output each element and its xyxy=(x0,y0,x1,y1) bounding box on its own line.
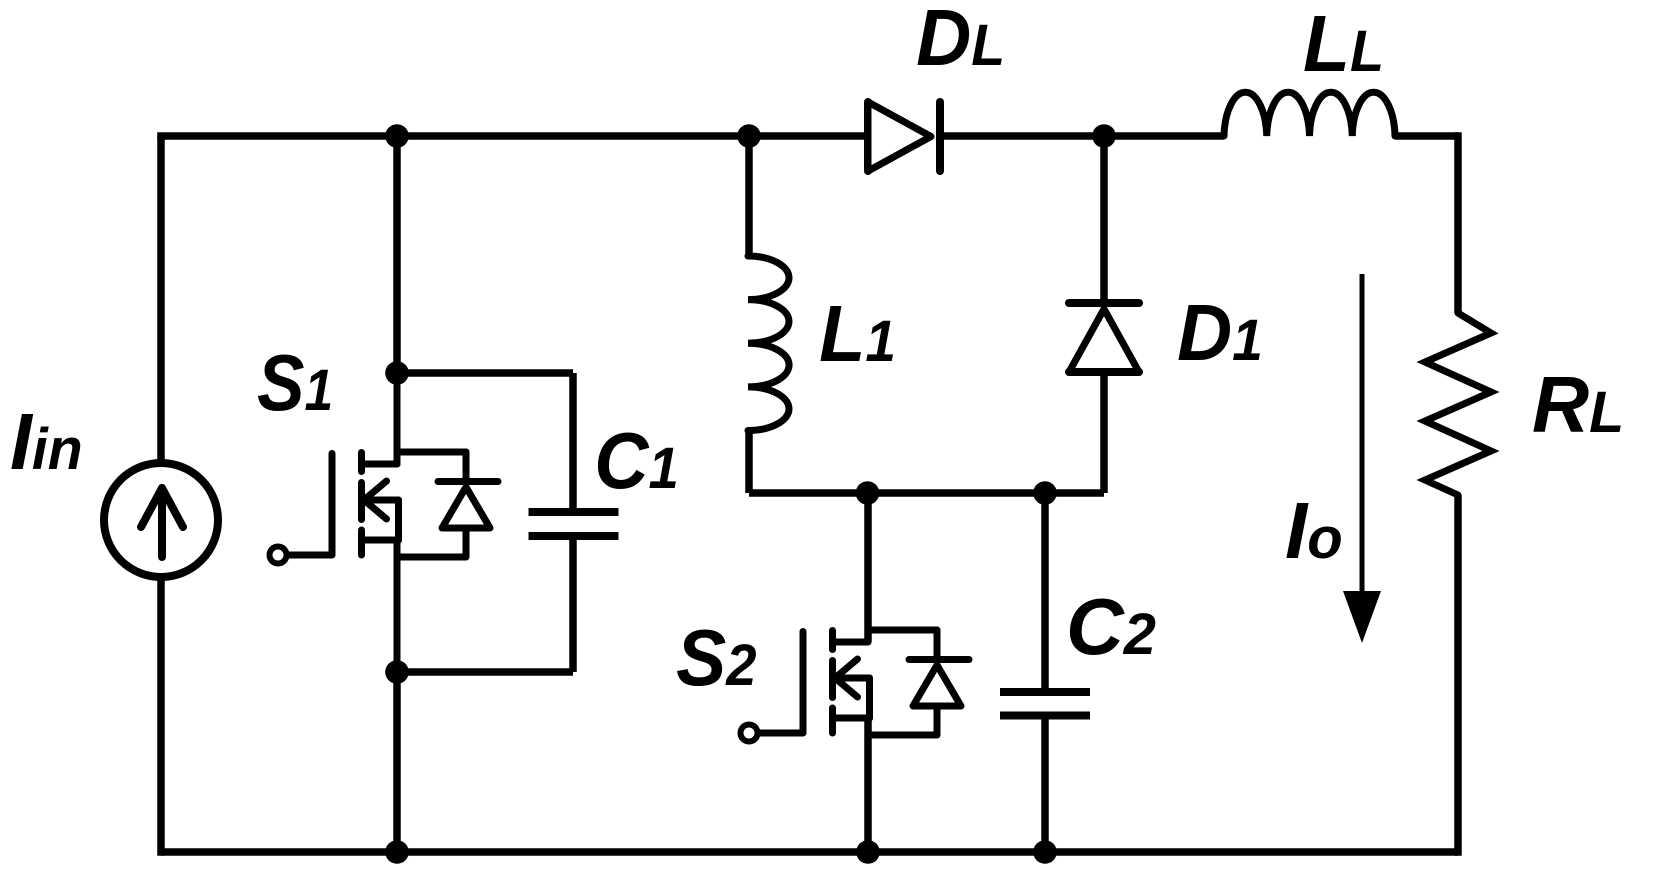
S1 channel segment drain xyxy=(358,453,365,472)
node bottom rail / C2 branch (junction dot) xyxy=(1033,840,1057,864)
S1 body diode anode lead xyxy=(463,528,470,557)
wire left rail upper (top rail to current source) xyxy=(157,136,165,464)
L1 top lead xyxy=(745,136,753,256)
diode D1 xyxy=(1069,136,1139,493)
D1 triangle xyxy=(1069,309,1139,372)
S2 source stub xyxy=(833,715,870,722)
D1 base bar xyxy=(1069,368,1139,376)
L1 bottom lead xyxy=(745,431,753,494)
node bottom rail / S2 branch (junction dot) xyxy=(856,840,880,864)
S2 body diode top branch xyxy=(868,627,937,634)
transistor S2 (MOSFET with body diode) xyxy=(741,493,970,852)
C1 top branch wire xyxy=(397,369,573,377)
node bottom rail / S1 branch (junction dot) xyxy=(385,840,409,864)
S2 body diode triangle xyxy=(913,665,961,706)
S1 body-source connector xyxy=(395,500,402,540)
S1 body diode cathode bar xyxy=(438,478,498,485)
S1 drain lead xyxy=(394,373,401,464)
S1 body diode cathode lead xyxy=(463,452,470,478)
arrow Io xyxy=(1343,274,1381,643)
wire S1 branch bottom (source node to bottom rail) xyxy=(393,672,401,852)
S1 body diode top branch xyxy=(397,449,466,456)
S1 body arrow barb upper xyxy=(364,481,387,500)
D1 cathode lead xyxy=(1100,136,1108,303)
wire top rail left segment xyxy=(161,132,868,136)
S1 body diode triangle xyxy=(442,487,490,528)
S2 body diode cathode lead xyxy=(934,630,941,656)
L1 coil xyxy=(748,256,789,431)
S2 body diode cathode bar xyxy=(909,656,969,663)
S1 body diode bottom branch xyxy=(398,554,465,561)
current source Iin xyxy=(104,463,218,577)
wire right rail lower (RL to bottom rail) xyxy=(1454,495,1462,856)
C1 bottom lead xyxy=(569,540,577,672)
inductor L1 xyxy=(748,136,789,493)
C1 top plate xyxy=(529,508,619,516)
node top rail / D1 branch (junction dot) xyxy=(1092,124,1116,148)
node mid rail / S2 branch (junction dot) xyxy=(856,481,880,505)
node top rail / S1 branch (junction dot) xyxy=(385,124,409,148)
resistor RL xyxy=(1425,313,1491,495)
node S1 source (junction dot) xyxy=(385,660,409,684)
S2 channel segment source xyxy=(829,708,836,733)
wire S1 branch top (top rail to S1 drain node) xyxy=(393,136,401,373)
S1 gate terminal circle xyxy=(270,547,287,564)
inductor LL xyxy=(1224,92,1395,136)
S1 drain stub xyxy=(362,461,397,468)
D1 cathode bar xyxy=(1069,299,1139,307)
C1 bottom branch wire xyxy=(397,668,573,676)
S2 body arrow shaft xyxy=(835,675,870,682)
transistor S1 (MOSFET with body diode) xyxy=(270,373,499,672)
node S1 drain (junction dot) xyxy=(385,361,409,385)
C2 top plate xyxy=(1000,688,1090,696)
S1 channel segment body xyxy=(358,483,365,520)
wire right rail upper (corner to RL) xyxy=(1454,132,1462,313)
S2 gate terminal circle xyxy=(741,725,758,742)
S2 body arrow barb upper xyxy=(835,659,858,678)
wire mid rail (L1 bottom to D1 anode) xyxy=(749,489,1104,497)
S2 gate bar xyxy=(800,632,807,733)
C1 top lead xyxy=(569,373,577,508)
S2 body diode anode lead xyxy=(934,706,941,735)
wire top rail middle segment (DL cathode to LL) xyxy=(940,132,1224,140)
node mid rail / C2 branch (junction dot) xyxy=(1033,481,1057,505)
C1 bottom plate xyxy=(529,532,619,540)
S1 source lead xyxy=(394,540,401,672)
capacitor C2 xyxy=(1000,493,1090,852)
S2 body-source connector xyxy=(866,678,873,718)
C2 bottom plate xyxy=(1000,712,1090,720)
wire left rail lower (current source to bottom rail) xyxy=(157,576,165,856)
DL triangle xyxy=(868,102,931,171)
S2 body arrow barb lower xyxy=(835,678,858,697)
S1 body arrow barb lower xyxy=(364,500,387,519)
S1 gate lead xyxy=(289,552,332,559)
diode DL xyxy=(868,102,940,171)
S1 source stub xyxy=(362,537,399,544)
S2 drain stub xyxy=(833,639,868,646)
C2 bottom lead xyxy=(1041,716,1049,853)
C2 top lead xyxy=(1041,493,1049,688)
node top rail / L1 branch (junction dot) xyxy=(737,124,761,148)
S1 gate bar xyxy=(329,454,336,555)
S2 channel segment body xyxy=(829,661,836,698)
DL cathode bar xyxy=(936,102,944,171)
S1 body arrow shaft xyxy=(364,497,399,504)
capacitor C1 xyxy=(397,373,619,672)
S1 channel segment source xyxy=(358,530,365,555)
D1 anode lead xyxy=(1100,372,1108,493)
wire top rail right segment (LL to top-right corner) xyxy=(1395,132,1458,140)
DL anode bar xyxy=(864,102,872,171)
S2 gate lead xyxy=(760,730,803,737)
wire bottom rail xyxy=(161,848,1458,856)
S2 body diode bottom branch xyxy=(869,732,936,739)
S2 source lead xyxy=(864,718,872,852)
LL coil xyxy=(1224,92,1395,136)
S2 drain lead xyxy=(864,493,872,642)
S2 channel segment drain xyxy=(829,631,836,650)
